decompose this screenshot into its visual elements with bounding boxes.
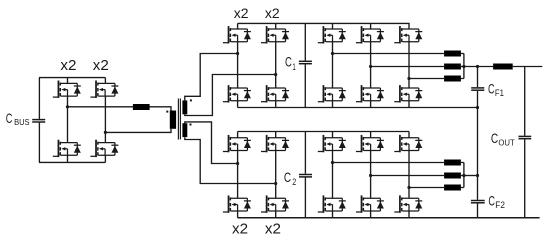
wire top bridge leg2 — [275, 23, 277, 107]
wire bottom stage2 legA — [332, 132, 334, 218]
transformer T1 primary winding — [170, 111, 176, 129]
wire top stage2 legC phase to inductor — [409, 78, 444, 80]
transformer T1 primary polarity dot — [166, 111, 168, 113]
node CF2 top junction — [476, 174, 479, 177]
transistor Q20 (bottom bridge leg1 outer, x2) — [223, 195, 251, 212]
inductor L1b (top interleaved phase B) — [444, 64, 461, 70]
wire bottom module outer rail — [238, 217, 540, 219]
wire input bridge leg1 AC output to primary — [68, 107, 172, 111]
transistor Q12 (top stage2 legA low) — [318, 85, 346, 102]
node input leg1 AC junction — [66, 105, 69, 108]
transistor Q21 (bottom bridge leg2 outer, x2) — [261, 195, 289, 212]
svg-text:C: C — [488, 193, 495, 209]
wire top module positive rail — [238, 22, 410, 24]
node bottom bridge leg1 AC junction — [236, 162, 239, 165]
capacitor CBUS — [32, 78, 45, 163]
svg-text:F2: F2 — [495, 200, 505, 210]
node input leg2 AC junction — [104, 131, 107, 134]
wire secondary1 dotted end to top bridge leg1 — [185, 54, 238, 101]
transistor Q13 (top stage2 legB low) — [356, 85, 384, 102]
wire secondary1 other end to top bridge leg2 — [185, 75, 276, 116]
wire input bridge bottom rail — [39, 161, 105, 163]
node top inductor join — [462, 65, 465, 68]
wire bottom inductor joins — [461, 163, 464, 188]
transformer T1 secondary winding 2 — [182, 123, 187, 137]
wire top output stub — [513, 66, 543, 68]
inductor Lout (output filter) — [493, 64, 513, 70]
node legC phase junction — [407, 77, 410, 80]
node bottom bridge leg2 AC junction — [274, 182, 277, 185]
transistor Q17 (bottom stage2 legA inner) — [318, 135, 346, 152]
svg-text:1: 1 — [292, 61, 295, 72]
inductor L1c (top interleaved phase C) — [444, 76, 461, 82]
wire top module output — [464, 66, 493, 68]
wire bottom stage2 legB phase to inductor — [371, 175, 445, 177]
wire top module negative rail — [238, 107, 478, 109]
transistor Q24 (bottom stage2 legC outer) — [394, 195, 422, 212]
capacitor CF2 — [471, 176, 485, 218]
transistor Q6 (top bridge leg2 high, x2) — [261, 26, 289, 43]
wire input bridge leg2 — [104, 78, 106, 163]
inductor L2a (bottom interleaved phase A) — [444, 160, 461, 166]
wire bottom bridge leg2 — [275, 132, 277, 218]
transistor Q19 (bottom stage2 legC inner) — [394, 135, 422, 152]
svg-text:OUT: OUT — [498, 138, 515, 148]
transistor Q23 (bottom stage2 legB outer) — [356, 195, 384, 212]
transistor Q3 (input bridge leg1 low) — [53, 140, 81, 157]
transformer T1 secondary 2 polarity dot — [190, 124, 192, 126]
capacitor C1 — [299, 23, 312, 107]
wire secondary2 dotted end to bottom bridge leg1 — [185, 122, 238, 164]
capacitor COUT — [519, 67, 532, 218]
transistor Q16 (bottom bridge leg2 inner) — [261, 135, 289, 152]
wire input bridge top rail — [39, 77, 105, 79]
wire top stage2 legB phase to inductor — [371, 66, 445, 68]
transistor Q15 (bottom bridge leg1 inner) — [223, 135, 251, 152]
capacitor C2 — [299, 132, 312, 218]
wire series link between modules — [477, 108, 479, 176]
inductor L2b (bottom interleaved phase B) — [444, 173, 461, 179]
wire top stage2 legA — [332, 23, 334, 107]
wire input bridge leg1 — [67, 78, 69, 163]
node bottom legB phase junction — [369, 174, 372, 177]
svg-text:C: C — [284, 169, 291, 185]
transistor Q1 (input bridge leg1 high, x2) — [53, 81, 81, 98]
wire secondary2 other end to bottom bridge leg2 — [185, 137, 276, 183]
node bottom legA phase junction — [331, 161, 334, 164]
node legB phase junction — [369, 65, 372, 68]
wire top bridge leg1 — [237, 23, 239, 107]
transistor Q14 (top stage2 legC low) — [394, 85, 422, 102]
wire top stage2 legB — [370, 23, 372, 107]
node CF1 bottom junction — [476, 106, 479, 109]
node CF1 top junction — [476, 65, 479, 68]
transistor Q10 (top bridge leg1 low) — [223, 85, 251, 102]
transistor Q22 (bottom stage2 legA outer) — [318, 195, 346, 212]
wire bottom stage2 legB — [370, 132, 372, 218]
svg-text:2: 2 — [292, 176, 296, 187]
wire input bridge leg2 AC return from primary — [105, 129, 171, 133]
wire top stage2 legA phase to inductor — [333, 53, 445, 55]
svg-text:BUS: BUS — [14, 117, 30, 127]
wire bottom stage2 legC — [408, 132, 410, 218]
svg-text:x2: x2 — [232, 220, 248, 237]
inductor L1a (top interleaved phase A) — [444, 51, 461, 57]
transistor Q9 (top stage2 legC high) — [394, 26, 422, 43]
capacitor CF1 — [471, 67, 484, 108]
svg-text:x2: x2 — [265, 220, 281, 237]
wire bottom stage2 legC phase to inductor — [409, 187, 444, 189]
wire bottom module output — [464, 175, 478, 177]
node bottom legC phase junction — [407, 186, 410, 189]
node top bridge leg2 AC junction — [274, 73, 277, 76]
svg-text:x2: x2 — [234, 5, 249, 21]
svg-text:x2: x2 — [265, 5, 280, 21]
transistor Q8 (top stage2 legB high) — [356, 26, 384, 43]
svg-text:C: C — [6, 110, 13, 126]
svg-text:C: C — [488, 80, 495, 96]
transistor Q4 (input bridge leg2 low) — [90, 140, 118, 157]
inductor Lr (series resonant) — [133, 104, 150, 110]
transistor Q2 (input bridge leg2 high, x2) — [90, 81, 118, 98]
svg-text:C: C — [285, 54, 292, 70]
wire bottom module inner rail — [238, 131, 409, 133]
svg-text:x2: x2 — [93, 57, 109, 74]
transistor Q11 (top bridge leg2 low) — [261, 85, 289, 102]
wire top inductor joins — [461, 54, 464, 79]
wire top stage2 legC — [408, 23, 410, 107]
transformer T1 secondary 1 polarity dot — [190, 99, 192, 101]
node top bridge leg1 AC junction — [236, 52, 239, 55]
transistor Q5 (top bridge leg1 high, x2) — [223, 26, 251, 43]
svg-text:x2: x2 — [60, 57, 76, 74]
inductor L2c (bottom interleaved phase C) — [444, 185, 461, 191]
transistor Q18 (bottom stage2 legB inner) — [356, 135, 384, 152]
node legA phase junction — [331, 52, 334, 55]
node bottom inductor join — [462, 174, 465, 177]
transformer T1 core — [178, 99, 180, 140]
wire bottom stage2 legA phase to inductor — [333, 162, 445, 164]
transistor Q7 (top stage2 legA high) — [318, 26, 346, 43]
wire bottom bridge leg1 — [237, 132, 239, 218]
transformer T1 secondary winding 1 — [182, 100, 187, 114]
svg-text:F1: F1 — [495, 88, 504, 98]
svg-text:C: C — [491, 130, 498, 146]
